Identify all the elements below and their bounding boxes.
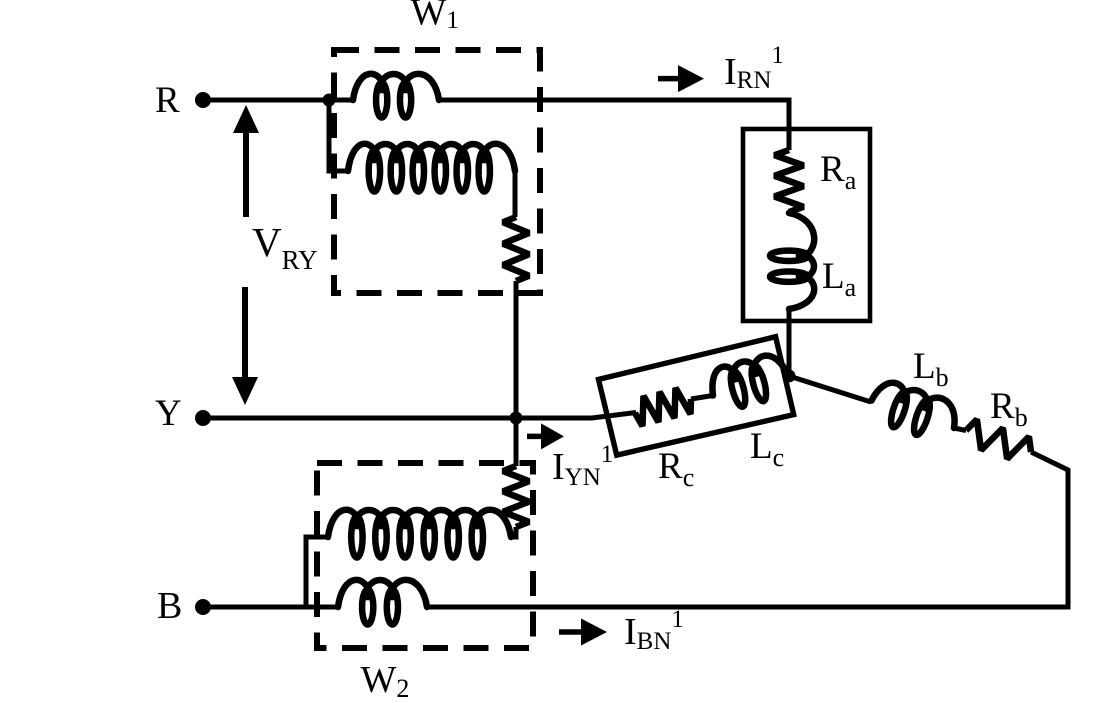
svg-text:Rc: Rc	[658, 446, 694, 492]
svg-text:Y: Y	[155, 393, 182, 434]
svg-text:VRY: VRY	[252, 219, 318, 275]
svg-text:W2: W2	[361, 659, 410, 703]
svg-text:Rb: Rb	[990, 386, 1028, 432]
svg-text:Lb: Lb	[913, 346, 949, 392]
svg-text:IRN1: IRN1	[724, 42, 784, 94]
svg-text:IYN1: IYN1	[552, 441, 613, 491]
svg-text:B: B	[157, 585, 182, 627]
svg-text:IBN1: IBN1	[624, 606, 684, 655]
svg-text:Lc: Lc	[750, 426, 784, 472]
svg-text:Ra: Ra	[820, 149, 857, 195]
svg-text:W1: W1	[411, 0, 459, 34]
svg-text:La: La	[822, 256, 857, 302]
svg-text:R: R	[155, 80, 180, 121]
